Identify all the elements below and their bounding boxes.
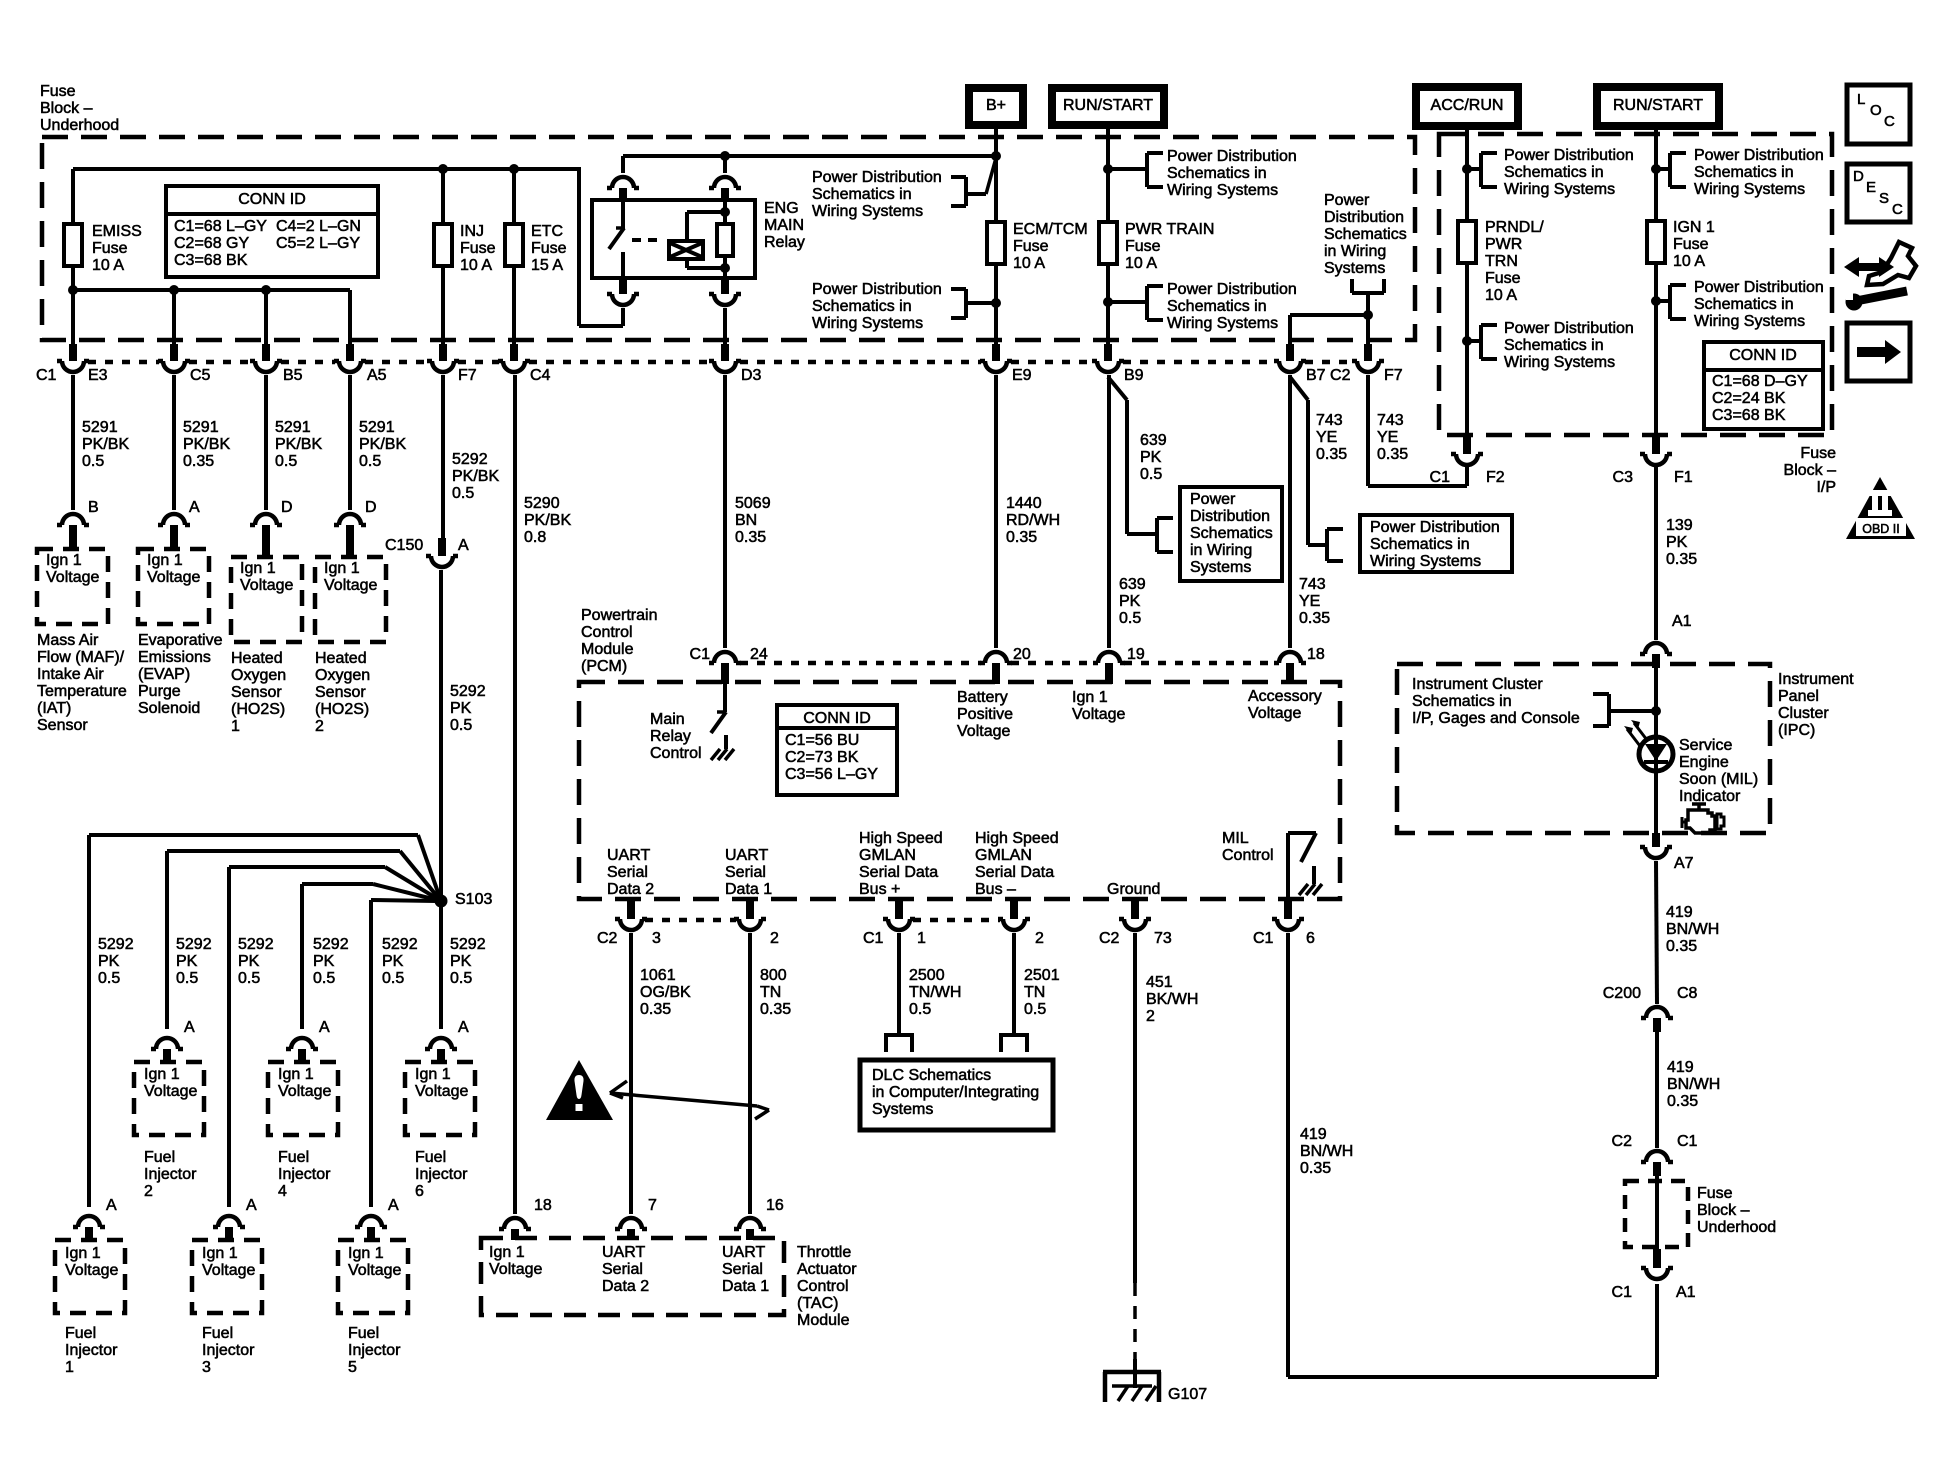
wire relay top-right riser — [723, 156, 727, 173]
svg-text:(HO2S): (HO2S) — [315, 701, 369, 718]
svg-text:Positive: Positive — [957, 706, 1013, 723]
svg-text:Sensor: Sensor — [231, 684, 282, 701]
component HO2S1 box (Ign 1 Voltage) — [231, 557, 302, 642]
label IGN 1 Fuse 10 A — [1673, 219, 1715, 270]
callout power distribution (B7/F7 feed) — [1324, 192, 1407, 315]
svg-text:Power: Power — [1190, 491, 1236, 508]
component EVAP solenoid box (Ign 1 Voltage) — [138, 549, 209, 624]
label Fuel Injector 5 — [348, 1325, 401, 1376]
svg-text:Control: Control — [1222, 847, 1274, 864]
svg-text:DLC Schematics: DLC Schematics — [872, 1067, 991, 1084]
svg-text:PK/BK: PK/BK — [359, 436, 406, 453]
svg-text:Serial: Serial — [607, 864, 648, 881]
svg-text:Voltage: Voltage — [46, 569, 99, 586]
svg-text:Battery: Battery — [957, 689, 1008, 706]
wire GMLAN- to DLC — [1012, 933, 1016, 1035]
label Battery Positive Voltage — [957, 689, 1013, 740]
svg-text:UART: UART — [602, 1244, 645, 1261]
svg-text:Module: Module — [581, 641, 634, 658]
LED light arrows — [1624, 720, 1647, 746]
wire S103 to injector 5 — [371, 900, 436, 1207]
svg-text:0.5: 0.5 — [1119, 610, 1141, 627]
wire bus lower run y326 — [579, 324, 623, 328]
svg-text:5292: 5292 — [450, 683, 486, 700]
wire drop E3 — [71, 290, 75, 344]
connector IPC pin A1 — [1640, 643, 1672, 668]
svg-text:Wiring Systems: Wiring Systems — [1504, 354, 1615, 371]
svg-text:Control: Control — [797, 1278, 849, 1295]
svg-text:D: D — [281, 499, 293, 516]
svg-text:D3: D3 — [741, 367, 762, 384]
connector C2/C1 — [1641, 1151, 1673, 1176]
pin B9 — [1124, 367, 1144, 384]
pin E3 — [88, 367, 108, 384]
wire PWR TRAIN fuse to B9 — [1106, 266, 1110, 344]
svg-text:(TAC): (TAC) — [797, 1295, 838, 1312]
label wire 451 BK/WH 2 — [1146, 974, 1198, 1025]
svg-text:A: A — [458, 537, 469, 554]
label Fuel Injector 6 — [415, 1149, 468, 1200]
label wire 5291 PK/BK 0.5 (B5) — [275, 419, 322, 470]
label C2 (PCM pin 73) — [1099, 930, 1120, 947]
svg-text:Voltage: Voltage — [324, 577, 377, 594]
wire UART1 to TAC pin 16 — [748, 933, 752, 1214]
connector fuel injector 2 pin A — [151, 1038, 183, 1062]
svg-text:451: 451 — [1146, 974, 1173, 991]
label C3 (F1 connector) — [1613, 469, 1634, 486]
wire A5 to HO2S2 — [348, 375, 352, 510]
svg-text:Control: Control — [581, 624, 633, 641]
label wire 639 PK 0.5 (to PCM) — [1119, 576, 1146, 627]
pin 24 — [750, 646, 768, 663]
label wire 2500 TN/WH 0.5 — [909, 967, 961, 1018]
label C2 (PCM pin 3) — [597, 930, 618, 947]
node RUN/START (right) — [1597, 87, 1719, 126]
svg-text:C1: C1 — [1612, 1284, 1633, 1301]
svg-text:TN: TN — [1024, 984, 1045, 1001]
svg-text:PK/BK: PK/BK — [82, 436, 129, 453]
wire drop A5 — [348, 290, 352, 344]
svg-text:PK: PK — [238, 953, 260, 970]
wire S103 to injector 3 — [229, 867, 441, 1207]
svg-text:0.35: 0.35 — [1666, 551, 1697, 568]
label wire 800 TN 0.35 — [760, 967, 791, 1018]
svg-text:0.5: 0.5 — [909, 1001, 931, 1018]
TAC module boundary — [481, 1238, 784, 1315]
svg-text:Voltage: Voltage — [65, 1262, 118, 1279]
connector C200/C8 — [1641, 1007, 1673, 1032]
connector PCM pin 6 — [1272, 900, 1304, 930]
relay switch contact — [609, 200, 625, 278]
connector fuel injector 1 pin A — [73, 1216, 105, 1240]
svg-text:Ign 1: Ign 1 — [1072, 689, 1108, 706]
svg-text:High Speed: High Speed — [975, 830, 1059, 847]
svg-text:E: E — [1866, 179, 1876, 196]
connector relay pin (coil out) — [709, 278, 741, 305]
junction dot F7 feed — [1363, 310, 1373, 320]
svg-text:YE: YE — [1377, 429, 1398, 446]
svg-text:Cluster: Cluster — [1778, 705, 1829, 722]
svg-text:0.5: 0.5 — [450, 717, 472, 734]
svg-text:RUN/START: RUN/START — [1613, 97, 1703, 114]
svg-text:Voltage: Voltage — [1248, 705, 1301, 722]
svg-text:PRNDL/: PRNDL/ — [1485, 219, 1544, 236]
PCM module boundary — [579, 682, 1340, 899]
svg-text:PK/BK: PK/BK — [275, 436, 322, 453]
junction dot IPC bracket — [1651, 706, 1661, 716]
svg-text:C3=56 L–GY: C3=56 L–GY — [785, 766, 878, 783]
component fuel injector 1 box (Ign 1 Voltage) — [55, 1240, 125, 1313]
svg-text:CONN ID: CONN ID — [238, 191, 306, 208]
callout power distribution (IGN1 bottom) — [1656, 279, 1824, 330]
svg-text:Voltage: Voltage — [147, 569, 200, 586]
label Fuel Injector 4 — [278, 1149, 331, 1200]
svg-text:Engine: Engine — [1679, 754, 1729, 771]
svg-text:6: 6 — [1306, 930, 1315, 947]
pin D (sensor connector) — [281, 499, 293, 516]
callout power distribution (ECM/TCM feed) — [812, 281, 996, 332]
svg-text:Wiring Systems: Wiring Systems — [1504, 181, 1615, 198]
svg-text:Voltage: Voltage — [240, 577, 293, 594]
svg-text:Serial: Serial — [722, 1261, 763, 1278]
wire fuse bus (y169) — [73, 167, 579, 171]
svg-text:Underhood: Underhood — [40, 117, 119, 134]
svg-text:24: 24 — [750, 646, 768, 663]
label Ign 1 Voltage (PCM) — [1072, 689, 1125, 723]
pin F7 (I/P feed) — [1384, 367, 1403, 384]
svg-text:Schematics: Schematics — [1324, 226, 1407, 243]
svg-text:Fuel: Fuel — [144, 1149, 175, 1166]
svg-text:Serial Data: Serial Data — [975, 864, 1054, 881]
pin 20 — [1013, 646, 1031, 663]
svg-text:C4=2 L–GN: C4=2 L–GN — [276, 218, 361, 235]
ground G107 — [1103, 1359, 1161, 1402]
svg-text:F7: F7 — [458, 367, 477, 384]
wire INJ fuse to connector — [441, 266, 445, 344]
label PWR TRAIN Fuse 10 A — [1125, 221, 1214, 272]
wire MIL indicator to A7 — [1654, 771, 1658, 834]
junction dot relay coil feed — [720, 151, 730, 161]
PCM top connector dotted line — [740, 661, 1275, 666]
svg-text:CONN ID: CONN ID — [1729, 347, 1797, 364]
svg-text:Oxygen: Oxygen — [231, 667, 286, 684]
svg-text:(EVAP): (EVAP) — [138, 666, 190, 683]
svg-text:UART: UART — [722, 1244, 765, 1261]
label S103 — [455, 891, 492, 908]
wire F7 to C150 — [441, 375, 445, 540]
svg-text:C2=24 BK: C2=24 BK — [1712, 390, 1786, 407]
connector B7 C2 — [1274, 344, 1306, 372]
svg-text:Panel: Panel — [1778, 688, 1819, 705]
pin A1 (IPC) — [1672, 613, 1692, 630]
icon forward arrow box — [1847, 323, 1910, 381]
junction dot callout at PRNDL wire (top) — [1462, 164, 1472, 174]
svg-text:Heated: Heated — [315, 650, 367, 667]
svg-text:Actuator: Actuator — [797, 1261, 857, 1278]
svg-text:PK: PK — [176, 953, 198, 970]
svg-text:PK: PK — [1119, 593, 1141, 610]
svg-text:A: A — [184, 1019, 195, 1036]
svg-text:0.5: 0.5 — [1140, 466, 1162, 483]
fuse PRNDL/PWR TRN — [1458, 221, 1476, 263]
junction dot callout at PWR TRAIN wire (top) — [1103, 164, 1113, 174]
wire B5 to HO2S1 — [264, 375, 268, 510]
svg-text:PK: PK — [450, 953, 472, 970]
svg-text:F7: F7 — [1384, 367, 1403, 384]
svg-text:Data 1: Data 1 — [722, 1278, 769, 1295]
label wire 743 YE 0.35 (F7) — [1377, 412, 1408, 463]
label Throttle Actuator Control (TAC) Module — [797, 1244, 857, 1329]
svg-text:RUN/START: RUN/START — [1063, 97, 1153, 114]
svg-text:Main: Main — [650, 711, 685, 728]
svg-text:Voltage: Voltage — [1072, 706, 1125, 723]
junction dot sub-bus E3 — [68, 285, 78, 295]
svg-text:Purge: Purge — [138, 683, 181, 700]
pin F1 — [1674, 469, 1693, 486]
table CONN ID (fuse block I/P) — [1704, 342, 1823, 429]
label Accessory Voltage — [1248, 688, 1322, 722]
wire B9 branch to callout — [1108, 377, 1157, 534]
label G107 — [1168, 1386, 1207, 1403]
pin 2 (UART1) — [770, 930, 779, 947]
svg-text:743: 743 — [1299, 576, 1326, 593]
connector row (fuse block bottom) dotted line — [88, 360, 1353, 365]
wire relay feed line (y156) — [623, 154, 996, 158]
svg-text:Bus +: Bus + — [859, 881, 900, 898]
svg-text:Fuse: Fuse — [1697, 1185, 1733, 1202]
svg-text:A7: A7 — [1674, 855, 1694, 872]
svg-text:C1: C1 — [36, 367, 57, 384]
fuse ETC — [505, 224, 523, 266]
svg-text:BK/WH: BK/WH — [1146, 991, 1198, 1008]
svg-text:10 A: 10 A — [1485, 287, 1517, 304]
svg-text:Voltage: Voltage — [415, 1083, 468, 1100]
svg-text:1: 1 — [917, 930, 926, 947]
label wire 1061 OG/BK 0.35 — [640, 967, 691, 1018]
svg-text:10 A: 10 A — [1125, 255, 1157, 272]
junction dot B+ at relay feed — [991, 151, 1001, 161]
wire A7 to C200 — [1656, 861, 1657, 1004]
svg-text:419: 419 — [1300, 1126, 1327, 1143]
label UART Serial Data 2 (TAC) — [602, 1244, 649, 1295]
svg-text:UART: UART — [725, 847, 768, 864]
svg-text:Power Distribution: Power Distribution — [1504, 320, 1634, 337]
svg-text:Voltage: Voltage — [348, 1262, 401, 1279]
svg-text:0.35: 0.35 — [1299, 610, 1330, 627]
svg-text:A1: A1 — [1676, 1284, 1696, 1301]
svg-text:A5: A5 — [367, 367, 387, 384]
connector TAC pin 7 — [615, 1218, 647, 1240]
label Fuel Injector 1 — [65, 1325, 118, 1376]
wire ETC fuse feed — [512, 169, 516, 224]
svg-text:BN/WH: BN/WH — [1667, 1076, 1720, 1093]
svg-text:0.35: 0.35 — [640, 1001, 671, 1018]
svg-text:1: 1 — [231, 718, 240, 735]
svg-text:C1=68 D–GY: C1=68 D–GY — [1712, 373, 1808, 390]
svg-text:Intake Air: Intake Air — [37, 666, 104, 683]
svg-text:Systems: Systems — [1190, 559, 1251, 576]
connector HO2S2 pin D — [334, 514, 366, 557]
note arrow (TAC serial data) — [610, 1081, 769, 1119]
wire sub-bus y290 — [73, 288, 350, 292]
svg-text:4: 4 — [278, 1183, 287, 1200]
connector PCM pin 3 — [615, 900, 647, 930]
svg-text:0.5: 0.5 — [1024, 1001, 1046, 1018]
pin F2 — [1486, 469, 1505, 486]
pin A (fuel injector 4) — [319, 1019, 330, 1036]
label wire 5292 PK 0.5 (injector 2) — [176, 936, 212, 987]
svg-text:Service: Service — [1679, 737, 1732, 754]
node S103 splice — [435, 895, 448, 908]
fuse PWR TRAIN — [1099, 222, 1117, 264]
connector EVAP pin A — [158, 514, 190, 549]
svg-text:10 A: 10 A — [460, 257, 492, 274]
svg-text:Serial Data: Serial Data — [859, 864, 938, 881]
svg-text:Fuse: Fuse — [1485, 270, 1521, 287]
svg-text:C1: C1 — [1677, 1133, 1698, 1150]
svg-text:C1: C1 — [863, 930, 884, 947]
svg-text:0.5: 0.5 — [313, 970, 335, 987]
label PRNDL/PWR TRN Fuse 10 A — [1485, 219, 1544, 304]
label Ground (PCM) — [1107, 881, 1160, 898]
svg-text:Wiring Systems: Wiring Systems — [1370, 553, 1481, 570]
svg-text:2: 2 — [770, 930, 779, 947]
label Fuse Block - Underhood — [40, 83, 119, 134]
wire E9 to PCM 20 — [994, 375, 998, 648]
svg-text:5291: 5291 — [82, 419, 118, 436]
svg-text:Mass Air: Mass Air — [37, 632, 99, 649]
svg-text:C2=73 BK: C2=73 BK — [785, 749, 859, 766]
svg-text:Ign 1: Ign 1 — [147, 552, 183, 569]
pin 18 (TAC) — [534, 1197, 552, 1214]
svg-text:16: 16 — [766, 1197, 784, 1214]
svg-text:Distribution: Distribution — [1190, 508, 1270, 525]
wire F7 to fuse block I/P — [1368, 375, 1467, 486]
label wire 419 BN/WH 0.35 (C200) — [1667, 1059, 1720, 1110]
svg-text:Ign 1: Ign 1 — [65, 1245, 101, 1262]
junction dot relay coil top — [720, 207, 730, 217]
label Fuel Injector 3 — [202, 1325, 255, 1376]
connector F7 — [1352, 344, 1384, 372]
label EMISS Fuse 10 A — [92, 223, 142, 274]
wire C150 to S103 — [439, 570, 443, 901]
svg-text:BN/WH: BN/WH — [1666, 921, 1719, 938]
icon warning triangle — [546, 1060, 613, 1120]
svg-text:Temperature: Temperature — [37, 683, 127, 700]
connector C3/F1 — [1640, 435, 1672, 465]
icon OBD II triangle — [1846, 477, 1915, 539]
wire relay top-left riser — [621, 156, 625, 173]
label Fuel Injector 2 — [144, 1149, 197, 1200]
label wire 5292 PK 0.5 (C150-S103) — [450, 683, 486, 734]
wire bus riser x579 — [577, 167, 581, 326]
svg-text:Solenoid: Solenoid — [138, 700, 200, 717]
junction dot callout at IGN1 wire (top) — [1651, 164, 1661, 174]
pin 6 — [1306, 930, 1315, 947]
svg-text:C2=68 GY: C2=68 GY — [174, 235, 249, 252]
svg-text:Module: Module — [797, 1312, 850, 1329]
svg-text:800: 800 — [760, 967, 787, 984]
svg-text:Ground: Ground — [1107, 881, 1160, 898]
svg-text:ECM/TCM: ECM/TCM — [1013, 221, 1088, 238]
svg-text:1440: 1440 — [1006, 495, 1042, 512]
svg-text:Instrument Cluster: Instrument Cluster — [1412, 676, 1543, 693]
svg-text:PWR: PWR — [1485, 236, 1522, 253]
svg-text:A: A — [246, 1197, 257, 1214]
svg-text:2: 2 — [315, 718, 324, 735]
svg-text:C150: C150 — [385, 537, 423, 554]
component fuel injector 3 box (Ign 1 Voltage) — [192, 1240, 262, 1313]
resistor relay (parallel) — [717, 224, 733, 256]
connector PCM pin 2 — [734, 900, 766, 930]
wire B7C2 to PCM 18 — [1288, 375, 1292, 648]
svg-text:Ign 1: Ign 1 — [144, 1066, 180, 1083]
connector PCM pin 19 — [1093, 652, 1125, 684]
svg-text:C: C — [1892, 201, 1903, 218]
svg-text:C2: C2 — [597, 930, 618, 947]
junction dot callout at ECM/TCM wire — [991, 298, 1001, 308]
connector B5 — [250, 344, 282, 372]
wire relay coil loop top — [687, 212, 725, 241]
svg-text:0.35: 0.35 — [1006, 529, 1037, 546]
pin B (sensor connector) — [88, 499, 99, 516]
svg-text:(IAT): (IAT) — [37, 700, 71, 717]
wire ground 451 to G107 — [1133, 933, 1137, 1283]
svg-text:639: 639 — [1140, 432, 1167, 449]
svg-text:Power Distribution: Power Distribution — [1370, 519, 1500, 536]
wire S103 to injector 6 — [439, 901, 443, 1029]
svg-text:0.35: 0.35 — [1667, 1093, 1698, 1110]
svg-text:OG/BK: OG/BK — [640, 984, 691, 1001]
pin 19 — [1127, 646, 1145, 663]
connector PCM pin 18 — [1274, 652, 1306, 684]
table CONN ID (PCM) — [777, 705, 897, 795]
svg-text:YE: YE — [1316, 429, 1337, 446]
wire D3 to PCM C1/24 — [723, 375, 727, 648]
relay coil box — [669, 241, 703, 259]
svg-text:OBD II: OBD II — [1862, 522, 1900, 536]
svg-text:Control: Control — [650, 745, 702, 762]
label C1 (PCM pin 1) — [863, 930, 884, 947]
svg-text:Schematics in: Schematics in — [1167, 165, 1267, 182]
PCM bottom dotted line (C2) — [645, 918, 736, 923]
svg-text:I/P, Gages and Console: I/P, Gages and Console — [1412, 710, 1580, 727]
label wire 5292 PK 0.5 (injector 6) — [450, 936, 486, 987]
svg-text:Ign 1: Ign 1 — [489, 1244, 525, 1261]
svg-text:5292: 5292 — [450, 936, 486, 953]
svg-text:Power Distribution: Power Distribution — [812, 281, 942, 298]
svg-text:0.5: 0.5 — [238, 970, 260, 987]
wire S103 to injector 4 — [302, 884, 441, 1029]
svg-text:Powertrain: Powertrain — [581, 607, 657, 624]
fuse ECM/TCM — [987, 222, 1005, 264]
svg-text:PK/BK: PK/BK — [524, 512, 571, 529]
fuse block - I/P boundary — [1439, 134, 1832, 435]
svg-text:Wiring Systems: Wiring Systems — [1167, 182, 1278, 199]
svg-text:743: 743 — [1377, 412, 1404, 429]
pin B5 — [283, 367, 303, 384]
label C1 (row A) — [36, 367, 57, 384]
svg-text:10 A: 10 A — [92, 257, 124, 274]
label wire 5069 BN 0.35 — [735, 495, 771, 546]
connector A5 — [334, 344, 366, 372]
wire MIL control loop — [1288, 933, 1657, 1377]
svg-text:Fuel: Fuel — [415, 1149, 446, 1166]
svg-text:Fuse: Fuse — [531, 240, 567, 257]
svg-text:ENG: ENG — [764, 200, 799, 217]
wire ACC/RUN drop — [1465, 126, 1469, 222]
svg-text:5: 5 — [348, 1359, 357, 1376]
